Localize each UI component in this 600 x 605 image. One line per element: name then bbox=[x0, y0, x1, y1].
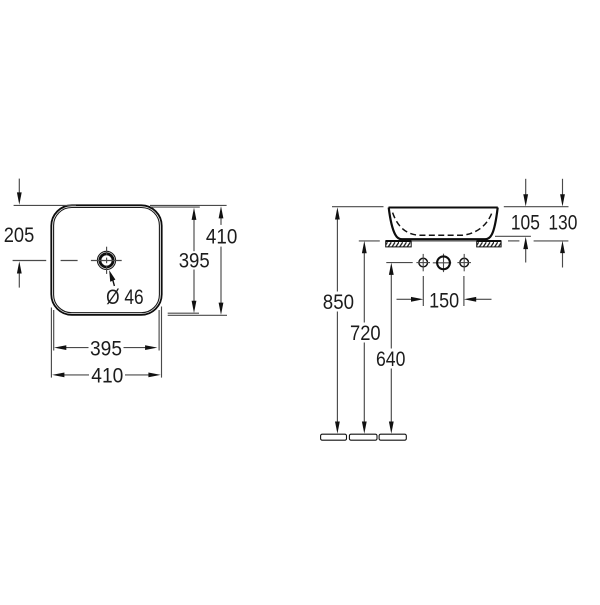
dimension 150 line with arrows bbox=[397, 298, 413, 300]
right mounting pad (hatched) bbox=[477, 241, 501, 247]
inner bottom extension line right bbox=[495, 235, 531, 237]
svg-text:410: 410 bbox=[206, 225, 237, 249]
dimension line 410 vertical bbox=[220, 218, 222, 225]
counter line bbox=[359, 240, 569, 242]
svg-text:410: 410 bbox=[91, 364, 123, 388]
bottom dims: extension lines bbox=[50, 308, 52, 378]
svg-text:105: 105 bbox=[511, 210, 540, 234]
basin outer profile bbox=[389, 208, 498, 240]
horizontal centerline through drain bbox=[13, 260, 122, 262]
dimension 105 vertical bbox=[525, 179, 527, 195]
svg-text:395: 395 bbox=[90, 336, 122, 360]
svg-text:395: 395 bbox=[179, 249, 210, 273]
leader arrow to drain bbox=[113, 280, 115, 286]
left mounting pad (hatched) bbox=[386, 241, 412, 247]
faucet hole right (circle with cross) bbox=[460, 258, 469, 267]
dimension line 410 bottom bbox=[64, 374, 90, 376]
faucet hole center (circle) bbox=[433, 262, 451, 264]
rim extension line right bbox=[504, 206, 569, 208]
svg-text:850: 850 bbox=[323, 290, 354, 314]
floor slabs bbox=[321, 434, 347, 440]
dimension 150: extension lines bbox=[422, 276, 424, 306]
dimension 130 vertical bbox=[562, 179, 564, 195]
dimension 205: upper arrow (down) bbox=[18, 179, 20, 193]
basin inner rim (rounded square) bbox=[54, 208, 160, 313]
svg-text:720: 720 bbox=[350, 321, 381, 345]
basin outer rim (rounded square) bbox=[51, 205, 161, 315]
svg-text:205: 205 bbox=[4, 223, 35, 247]
dimension 395/410 right: extension lines bbox=[150, 204, 227, 206]
dimension line 395 vertical bbox=[193, 220, 195, 252]
dimension 205: extension line top bbox=[14, 204, 76, 206]
hole centre extension line bbox=[386, 262, 412, 264]
dimension line 395 bottom bbox=[66, 347, 89, 349]
drain outer circle bbox=[97, 251, 115, 269]
basin inner bowl (dashed) bbox=[393, 213, 492, 236]
svg-text:130: 130 bbox=[548, 210, 577, 234]
svg-text:640: 640 bbox=[376, 347, 405, 371]
dimension 640 vertical line bbox=[390, 274, 392, 348]
dimension 205: lower arrow (up) bbox=[18, 273, 20, 288]
drain inner circle bbox=[100, 254, 113, 267]
faucet hole left (circle with cross) bbox=[419, 258, 428, 267]
vertical centerline through drain bbox=[106, 247, 108, 274]
dimension 720 vertical line bbox=[363, 253, 365, 323]
svg-text:Ø 46: Ø 46 bbox=[106, 285, 144, 309]
dimension 850 vertical line bbox=[336, 219, 338, 292]
svg-text:150: 150 bbox=[429, 288, 459, 312]
basin rim (top line) bbox=[389, 206, 498, 208]
rim extension line left bbox=[332, 206, 384, 208]
